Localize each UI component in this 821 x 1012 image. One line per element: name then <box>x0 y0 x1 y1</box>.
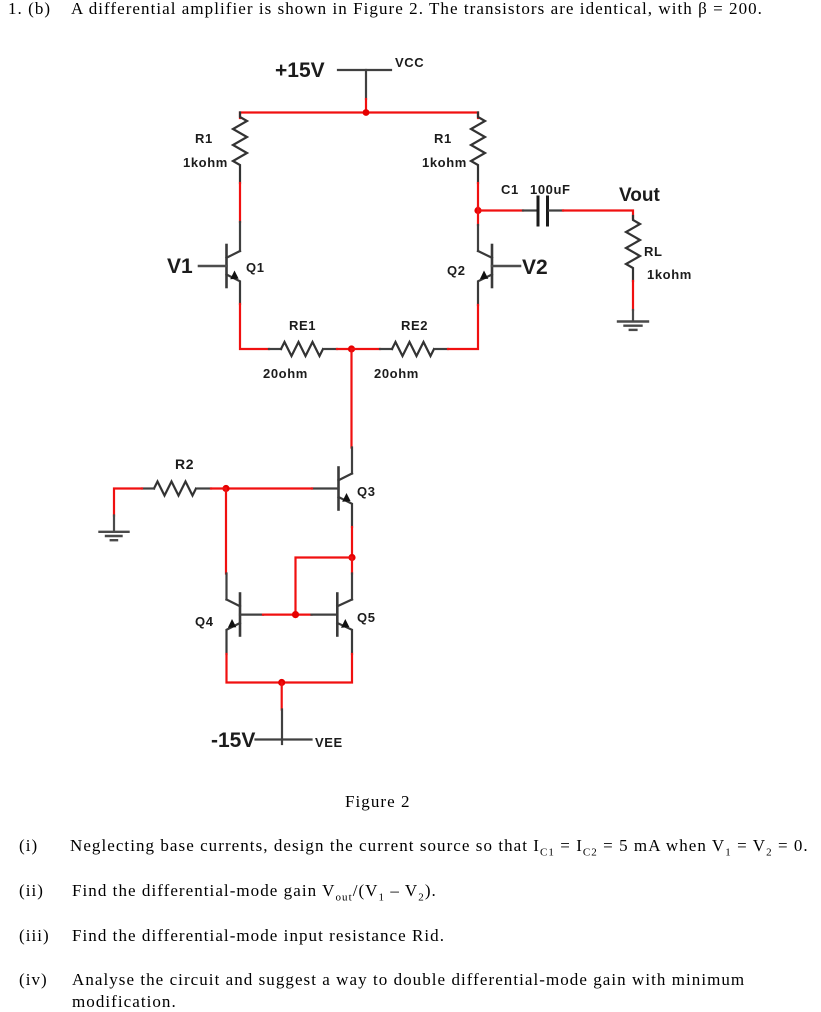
problem statement line <box>8 0 51 19</box>
question (iv) <box>19 970 48 990</box>
capacitor C1 <box>538 197 548 225</box>
svg-text:Vout: Vout <box>619 185 660 206</box>
svg-text:+15V: +15V <box>275 59 325 82</box>
wire C1 left lead <box>523 209 536 211</box>
wire Q4 collector stub <box>225 574 227 600</box>
node Q2 collector / C1 junction <box>474 207 481 214</box>
wire Q1 collector stub <box>239 222 241 251</box>
wire R2 to junction (red) <box>211 487 226 489</box>
resistor RE2 <box>392 342 434 356</box>
svg-text:100uF: 100uF <box>530 182 571 197</box>
wire VCC stem (red) <box>365 99 367 113</box>
wire C1 to Vout node (red) <box>563 211 633 219</box>
resistor R1 (left) <box>233 113 247 184</box>
question (i) <box>19 836 38 856</box>
wire center node down to Q3 (red) <box>350 349 352 448</box>
VCC power symbol <box>338 70 391 99</box>
wire junction down to Q5 collector (red) <box>351 558 353 574</box>
svg-text:RE2: RE2 <box>401 318 428 333</box>
wire Q2 collector stub <box>477 225 479 251</box>
wire Q5 collector stub <box>351 574 353 600</box>
wire Q3 base lead <box>312 487 339 489</box>
node R2/Q4/Q3-base junction <box>222 485 229 492</box>
wire R2 right lead <box>198 487 211 489</box>
wire V2 base lead <box>492 265 520 268</box>
svg-text:VCC: VCC <box>395 55 424 70</box>
transistor Q4 (mirrored) <box>227 594 241 655</box>
ground (RL) <box>618 322 648 330</box>
svg-text:RE1: RE1 <box>289 318 316 333</box>
wire R2 left lead <box>142 487 154 489</box>
svg-text:Q5: Q5 <box>357 610 376 625</box>
svg-text:R1: R1 <box>195 131 213 146</box>
svg-text:C1: C1 <box>501 182 519 197</box>
wire V1 base lead <box>199 265 227 268</box>
wire Q5 base lead <box>312 613 338 615</box>
wire VEE stem <box>281 710 283 745</box>
resistor R2 <box>154 482 196 496</box>
node Q3 emitter / Q5 collector / base-link junction <box>348 554 355 561</box>
wire rail to VEE (red) <box>281 683 283 710</box>
wire ground stub <box>632 310 634 321</box>
VEE power symbol bar <box>256 738 312 740</box>
svg-text:1kohm: 1kohm <box>183 155 228 170</box>
wire base bus Q4-Q5 (red) <box>263 613 312 615</box>
svg-text:1kohm: 1kohm <box>422 155 467 170</box>
wire RE2 to Q2 emitter (red) <box>448 305 478 349</box>
svg-text:Q3: Q3 <box>357 484 376 499</box>
ground (R2) <box>100 532 129 540</box>
resistor RE1 <box>281 342 323 356</box>
question (ii) <box>19 881 44 901</box>
wire top rail <box>240 113 478 119</box>
wire R1 to collector node (red) <box>477 183 479 207</box>
question (iii) <box>19 926 50 946</box>
svg-text:Q4: Q4 <box>195 614 214 629</box>
wire C1 right lead <box>549 209 563 211</box>
svg-text:20ohm: 20ohm <box>263 366 308 381</box>
wire RE1 left lead <box>269 348 281 350</box>
svg-text:20ohm: 20ohm <box>374 366 419 381</box>
svg-text:R1: R1 <box>434 131 452 146</box>
transistor Q1 <box>227 245 241 304</box>
node bottom rail junction <box>278 679 285 686</box>
wire collector node to C1 (red) <box>478 209 523 211</box>
wire Q1 emitter (red) <box>240 304 269 349</box>
svg-text:-15V: -15V <box>211 729 255 752</box>
node emitter-rail junction <box>348 345 355 352</box>
wire junction down to Q2 (red) <box>477 207 479 225</box>
wire Q4 collector from junction (red) <box>225 489 227 574</box>
svg-text:Q1: Q1 <box>246 260 265 275</box>
svg-text:V1: V1 <box>167 255 193 278</box>
wire Q4 base lead <box>240 613 263 615</box>
svg-text:R2: R2 <box>175 456 194 472</box>
wire RE1 to center node (red) <box>337 348 352 350</box>
transistor Q5 <box>337 594 352 655</box>
resistor RL <box>626 216 640 281</box>
wire RE2 right lead <box>436 348 448 350</box>
wire RE2 left lead <box>380 348 392 350</box>
wire center node to RE2 (red) <box>352 348 381 350</box>
wire Q3 collector stub <box>351 448 353 474</box>
wire base net R2/Q4 to Q3 (red) <box>226 487 312 489</box>
wire Q5 emitter to bottom rail (red) <box>282 654 352 683</box>
svg-text:RL: RL <box>644 244 663 259</box>
svg-text:1kohm: 1kohm <box>647 267 692 282</box>
wire ground to R2 (red) <box>114 489 142 516</box>
transistor Q2 (mirrored) <box>478 245 492 305</box>
wire RL to ground (red) <box>632 281 634 310</box>
svg-text:Q2: Q2 <box>447 263 466 278</box>
wire Q3 emitter (red) <box>351 527 353 554</box>
node VCC rail junction <box>363 109 370 116</box>
svg-text:VEE: VEE <box>315 735 343 750</box>
node base bus junction <box>292 611 299 618</box>
wire Q4 emitter to bottom rail (red) <box>227 654 282 683</box>
figure caption <box>345 792 411 812</box>
resistor R1 (right) <box>471 113 485 184</box>
wire R1 to Q1 collector (red) <box>239 183 241 222</box>
wire ground stub (left) <box>113 516 115 532</box>
wire base-link horizontal+vertical (red) <box>296 558 353 612</box>
transistor Q3 <box>339 468 353 528</box>
wire RE1 right lead <box>325 348 337 350</box>
svg-text:V2: V2 <box>522 256 548 279</box>
